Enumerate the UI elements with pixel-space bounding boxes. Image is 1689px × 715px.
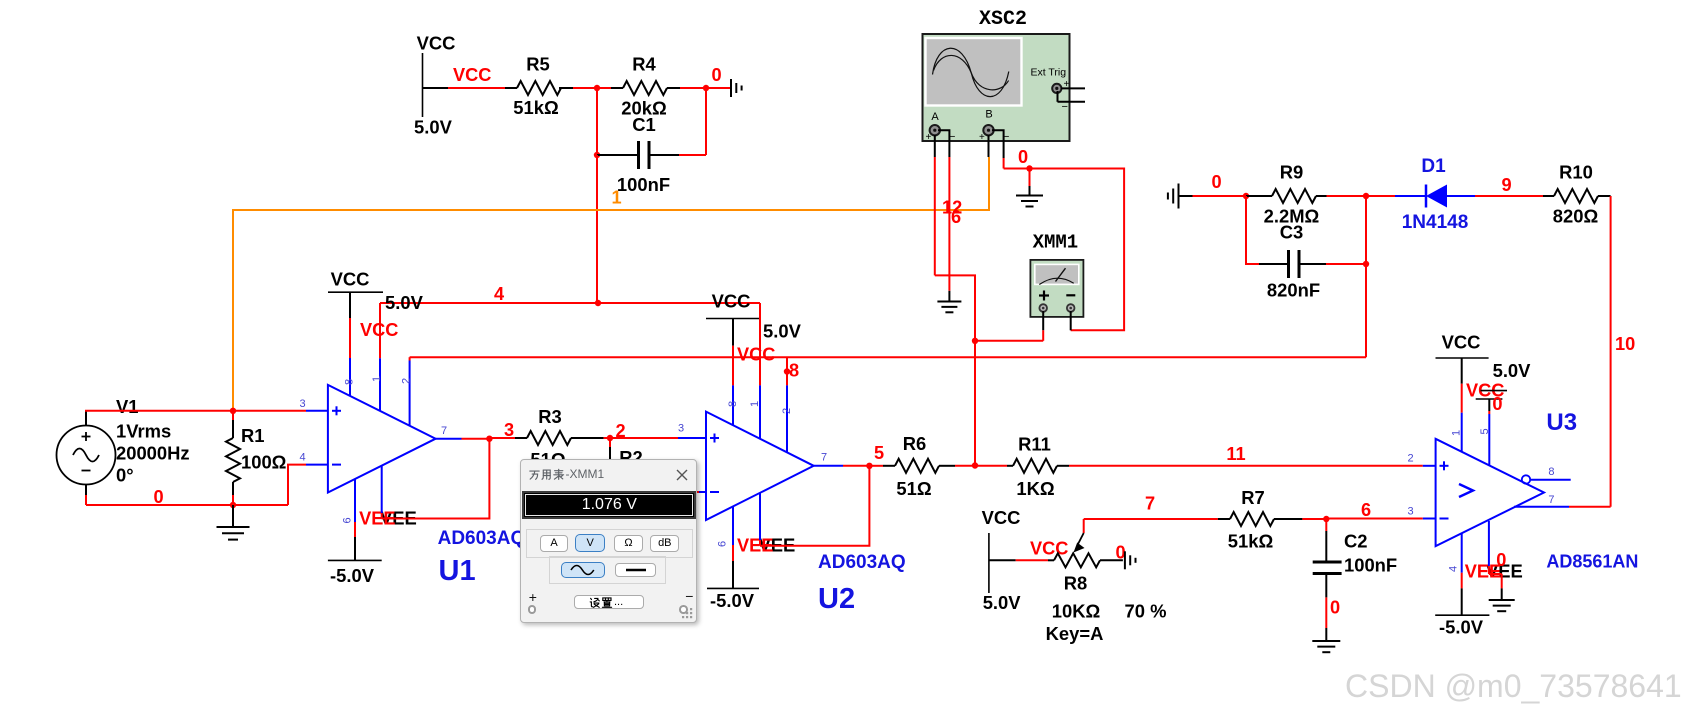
svg-text:7: 7	[441, 425, 447, 437]
button sine (selected)	[561, 562, 605, 578]
source V1	[57, 426, 116, 485]
svg-text:VCC: VCC	[712, 291, 751, 312]
resistor R7	[1218, 518, 1230, 520]
svg-text:0: 0	[1211, 172, 1221, 192]
svg-text:0: 0	[153, 487, 163, 507]
scope trace B	[934, 55, 1009, 89]
ground right-facing (top)	[730, 79, 732, 97]
U2 VCC rail	[706, 318, 759, 320]
U3 gt symbol	[1459, 484, 1473, 497]
multimeter XMM1 body	[1030, 260, 1083, 317]
dialog minus label	[685, 588, 693, 604]
wire U1 out to R3	[489, 437, 515, 439]
svg-text:VCC: VCC	[1442, 332, 1481, 353]
svg-text:VCC: VCC	[737, 345, 775, 365]
multimeter dialog window	[520, 459, 697, 623]
svg-text:9: 9	[1501, 175, 1511, 195]
dialog minus connector	[679, 605, 688, 614]
svg-text:51Ω: 51Ω	[896, 478, 931, 499]
ground V1	[232, 505, 234, 527]
dialog plus connector	[528, 605, 537, 614]
svg-text:820Ω: 820Ω	[1553, 206, 1598, 227]
svg-text:10: 10	[1615, 334, 1635, 354]
wire node 2 to U2 pin3	[610, 437, 678, 439]
ground node 0 scope	[1029, 169, 1031, 187]
Ext Trig connector	[1052, 84, 1061, 93]
svg-text:C2: C2	[1344, 531, 1368, 552]
U2 pin 5 feedback	[759, 493, 761, 541]
svg-text:-5.0V: -5.0V	[330, 565, 375, 586]
svg-text:5.0V: 5.0V	[763, 321, 802, 342]
wire D1 to R10	[1475, 195, 1543, 197]
junction node 6	[1323, 516, 1329, 522]
svg-text:5.0V: 5.0V	[385, 292, 424, 313]
svg-text:0: 0	[711, 65, 721, 85]
dialog plus label	[529, 589, 537, 605]
meter needle arc	[1039, 278, 1073, 284]
resistor R11	[975, 465, 1007, 467]
svg-text:R3: R3	[538, 406, 562, 427]
svg-text:5: 5	[874, 443, 884, 463]
wire net 8 horizontal	[410, 356, 1366, 358]
U1 minus sign	[332, 464, 341, 466]
comparator U3 AD8561AN	[1436, 439, 1544, 546]
svg-text:5.0V: 5.0V	[983, 592, 1022, 613]
wire R3 to node 2	[604, 437, 610, 439]
XMM plus connector	[1039, 304, 1047, 312]
wire net 11 to U3 pin2	[1069, 465, 1423, 467]
svg-text:7: 7	[1145, 494, 1155, 514]
svg-text:1KΩ: 1KΩ	[1016, 478, 1054, 499]
XMM minus connector	[1067, 304, 1075, 312]
settings button	[574, 595, 644, 609]
svg-text:R11: R11	[1018, 434, 1051, 455]
junction node 4 top	[594, 85, 600, 91]
U1 pin 5 feedback	[381, 466, 383, 513]
svg-text:Key=A: Key=A	[1046, 623, 1104, 644]
button Ohm	[614, 535, 642, 552]
junction node 11 tap	[972, 462, 978, 468]
U1 pin 1	[379, 303, 381, 358]
XMM plus terminal label	[1039, 294, 1049, 296]
wire node 0 across to XMM1 minus	[1004, 169, 1125, 331]
U2 pin 1	[759, 303, 761, 385]
wire R9 to junction right	[1327, 195, 1367, 197]
ground C2	[1312, 640, 1340, 642]
junction R1 bottom	[230, 502, 236, 508]
wire XMM minus down	[1070, 311, 1072, 330]
svg-text:VCC: VCC	[982, 507, 1021, 528]
junction U2 output	[866, 463, 872, 469]
wire node4 down to C1	[596, 88, 598, 155]
svg-text:3: 3	[678, 423, 684, 435]
svg-text:AD8561AN: AD8561AN	[1546, 552, 1638, 572]
U1 VEE rail	[328, 559, 382, 561]
svg-text:6: 6	[951, 207, 961, 227]
svg-text:0: 0	[1492, 394, 1502, 414]
resize grip	[682, 608, 694, 620]
svg-text:820nF: 820nF	[1267, 280, 1320, 301]
svg-text:VCC: VCC	[453, 65, 491, 85]
capacitor C3	[1259, 263, 1288, 265]
svg-text:3: 3	[1407, 506, 1413, 518]
svg-text:R9: R9	[1280, 162, 1304, 183]
svg-text:0°: 0°	[116, 465, 134, 486]
svg-text:6: 6	[717, 541, 729, 547]
oscilloscope screen	[926, 38, 1022, 106]
button dB	[650, 535, 679, 552]
ground scope A-	[937, 301, 961, 303]
junction U2 pin2 tap	[784, 368, 790, 374]
wire scope B- to node 0	[992, 130, 1004, 158]
ground U3 pin6	[1489, 599, 1515, 601]
svg-text:100nF: 100nF	[617, 174, 670, 195]
wire XMM tap down to node 11	[974, 341, 976, 466]
svg-text:XSC2: XSC2	[979, 8, 1027, 31]
U3 minus sign	[1440, 518, 1449, 520]
wire node4 down to wire 4	[596, 155, 598, 303]
capacitor C1	[597, 154, 639, 156]
dialog close button	[676, 468, 688, 480]
svg-text:51kΩ: 51kΩ	[1228, 531, 1273, 552]
U1 pin 6	[354, 479, 356, 522]
XMM minus terminal label	[1066, 294, 1075, 296]
svg-text:11: 11	[1226, 444, 1245, 464]
svg-text:VCC: VCC	[1030, 539, 1068, 559]
svg-text:70 %: 70 %	[1125, 601, 1167, 622]
svg-text:1Vrms: 1Vrms	[116, 421, 171, 442]
channel B connector	[983, 125, 993, 135]
svg-text:AD603AQ: AD603AQ	[438, 528, 526, 549]
junction node 0 scope	[1026, 165, 1032, 171]
svg-text:7: 7	[1548, 494, 1554, 506]
svg-text:7: 7	[821, 451, 827, 463]
junction C3 right	[1363, 261, 1369, 267]
svg-text:2: 2	[1407, 453, 1413, 465]
U3 VEE rail	[1435, 614, 1489, 616]
svg-text:0: 0	[1018, 147, 1028, 167]
svg-text:U3: U3	[1546, 409, 1577, 436]
svg-text:C1: C1	[632, 114, 656, 135]
junction V1 top node	[230, 408, 236, 414]
wire net 10 (R10 down to U3 output)	[1610, 196, 1612, 507]
scope trace A	[933, 48, 1009, 96]
svg-text:AD603AQ: AD603AQ	[818, 552, 906, 573]
svg-text:8: 8	[1548, 466, 1554, 478]
U3 plus sign	[1440, 465, 1449, 467]
wire VCC to R5	[423, 87, 449, 89]
button A	[540, 535, 569, 552]
junction net 4	[595, 300, 601, 306]
junction node 2	[607, 435, 613, 441]
svg-text:XMM1: XMM1	[1033, 232, 1079, 254]
dialog mode frame	[526, 529, 693, 558]
dialog wave frame	[549, 556, 666, 584]
svg-text:Ext Trig: Ext Trig	[1031, 67, 1067, 79]
wire scope A- to ground	[938, 130, 949, 157]
svg-text:4: 4	[299, 452, 305, 464]
svg-text:8: 8	[344, 379, 356, 385]
resistor R1	[232, 411, 234, 420]
wire to U1 pin3	[233, 410, 306, 412]
svg-text:5.0V: 5.0V	[1493, 360, 1532, 381]
svg-text:1: 1	[611, 188, 621, 208]
resistor R2 (vertical, behind dialog)	[609, 438, 611, 447]
svg-text:A: A	[931, 111, 939, 123]
svg-text:4: 4	[1448, 566, 1460, 572]
U1 VCC rail	[328, 291, 383, 293]
svg-text:-5.0V: -5.0V	[1439, 617, 1484, 638]
resistor R5	[505, 87, 517, 89]
dialog title	[529, 467, 634, 484]
op-amp U2 AD603AQ	[706, 412, 814, 520]
R8 wiper arrow	[1083, 519, 1085, 533]
wire node 6 to U3 pin3	[1326, 518, 1423, 520]
wire C3 left branch	[1246, 196, 1259, 264]
svg-text:2: 2	[781, 408, 793, 414]
button V (selected)	[575, 534, 605, 553]
U2 pin 8	[732, 319, 734, 346]
svg-text:10KΩ: 10KΩ	[1052, 601, 1100, 622]
svg-text:R4: R4	[632, 54, 656, 75]
multimeter screen	[1035, 264, 1079, 284]
op-amp U1 AD603AQ	[328, 385, 436, 493]
resistor R6	[869, 465, 883, 467]
button DC line	[615, 563, 656, 577]
svg-text:R10: R10	[1559, 162, 1593, 183]
capacitor C2	[1325, 519, 1327, 531]
diode D1 1N4148	[1366, 195, 1395, 197]
svg-text:0: 0	[1330, 598, 1340, 618]
U1 pin 2	[409, 357, 411, 360]
svg-text:6: 6	[1361, 500, 1371, 520]
svg-text:R7: R7	[1241, 487, 1265, 508]
U2 output pin 7	[814, 465, 843, 467]
Ext Trig stub wires	[1061, 87, 1085, 89]
svg-text:1N4148: 1N4148	[1402, 212, 1469, 233]
svg-text:U1: U1	[439, 555, 476, 587]
svg-text:8: 8	[789, 361, 799, 381]
svg-text:1: 1	[371, 376, 383, 382]
wire XMM plus down	[1042, 311, 1044, 330]
junction node 0	[703, 85, 709, 91]
svg-text:...: ...	[614, 596, 623, 608]
svg-text:20000Hz: 20000Hz	[116, 443, 190, 464]
wire R7 to node 6	[1302, 518, 1326, 520]
svg-text:-XMM1: -XMM1	[566, 467, 605, 481]
svg-text:2: 2	[400, 378, 412, 384]
U3 output pin 7	[1514, 506, 1569, 508]
wire V1 top	[85, 410, 87, 426]
svg-text:VCC: VCC	[417, 33, 456, 54]
svg-text:U2: U2	[818, 583, 855, 615]
wire R5 to node 4 junction	[573, 87, 597, 89]
svg-text:+: +	[926, 132, 932, 143]
svg-text:6: 6	[342, 517, 354, 523]
junction R9 left	[1243, 193, 1249, 199]
wire junction to R4	[597, 87, 611, 89]
svg-text:1: 1	[1451, 430, 1463, 436]
svg-text:VCC: VCC	[331, 269, 370, 290]
wire to U2 pin4 (mostly hidden)	[620, 491, 699, 493]
svg-text:B: B	[985, 109, 992, 121]
wire net 1 (orange) from V1 node to scope B	[233, 157, 989, 411]
svg-text:1: 1	[749, 401, 761, 407]
svg-text:100nF: 100nF	[1344, 555, 1397, 576]
resistor R9	[1246, 195, 1272, 197]
ground right-facing (R8)	[1124, 551, 1126, 569]
wire VCC to R8	[989, 559, 1016, 561]
ground left-facing (R9)	[1178, 184, 1180, 209]
resistor R10	[1543, 195, 1554, 197]
svg-text:+: +	[979, 132, 985, 143]
U3 pin 6 to ground	[1488, 521, 1490, 566]
U3 pin 4	[1461, 533, 1463, 573]
U2 plus sign	[710, 437, 719, 439]
wire C2 to ground	[1325, 597, 1327, 628]
svg-text:51kΩ: 51kΩ	[513, 97, 558, 118]
potentiometer R8	[1048, 559, 1054, 561]
wire net 4 (gain pins)	[380, 302, 760, 304]
wire net 7	[1084, 518, 1218, 520]
svg-text:8: 8	[727, 401, 739, 407]
junction XMM plus tap	[972, 338, 978, 344]
wire C3 right branch	[1326, 263, 1366, 265]
U2 VEE rail	[707, 587, 759, 589]
U3 pin 8 stub	[1522, 475, 1530, 483]
meter needle	[1056, 268, 1066, 281]
wire ground to R9	[1179, 195, 1193, 197]
U2 pin 6	[732, 507, 734, 546]
wire scope A+ down	[934, 135, 936, 157]
wire C1 right up to node 0	[679, 154, 706, 156]
U3 pin 1	[1461, 358, 1463, 384]
svg-text:5: 5	[1479, 428, 1491, 434]
U3 VCC rail	[1436, 357, 1489, 359]
junction R9 right	[1363, 193, 1369, 199]
U1 plus sign	[332, 410, 341, 412]
wire to U1 pin4	[288, 465, 306, 505]
svg-text:0: 0	[1496, 550, 1506, 570]
resistor R4	[611, 87, 623, 89]
U1 output pin 7	[436, 438, 462, 440]
resistor R3	[515, 437, 527, 439]
junction U1 output	[486, 436, 492, 442]
channel A connector	[930, 125, 940, 135]
U3 pin 5 with net 0 bar	[1481, 390, 1508, 392]
svg-text:3: 3	[299, 398, 305, 410]
junction C1 left	[594, 152, 600, 158]
svg-text:C3: C3	[1280, 222, 1304, 243]
svg-text:R1: R1	[241, 425, 265, 446]
oscilloscope XSC2 body	[923, 34, 1070, 141]
wire V1 bottom	[85, 485, 87, 496]
svg-text:4: 4	[494, 284, 505, 304]
wire to ground	[706, 87, 731, 89]
svg-text:-5.0V: -5.0V	[710, 590, 755, 611]
svg-text:R8: R8	[1064, 573, 1088, 594]
svg-text:−: −	[1062, 101, 1068, 113]
wire R4 to ground node 0	[680, 87, 706, 89]
svg-text:D1: D1	[1421, 156, 1446, 177]
CSDN watermark	[1345, 668, 1682, 705]
U2 minus sign	[710, 491, 719, 493]
svg-text:R5: R5	[526, 54, 550, 75]
svg-text:V1: V1	[116, 396, 139, 417]
wire node 8 vertical	[1365, 196, 1367, 357]
svg-text:100Ω: 100Ω	[241, 452, 286, 473]
dialog display 1.076 V	[522, 491, 696, 519]
U2 pin 2	[786, 357, 788, 385]
U1 pin 8	[349, 292, 351, 318]
wire scope A+ to XMM junction	[935, 275, 975, 340]
svg-text:5.0V: 5.0V	[414, 117, 453, 138]
svg-text:R6: R6	[903, 433, 927, 454]
wire scope B+ down (black upper part)	[988, 135, 990, 157]
